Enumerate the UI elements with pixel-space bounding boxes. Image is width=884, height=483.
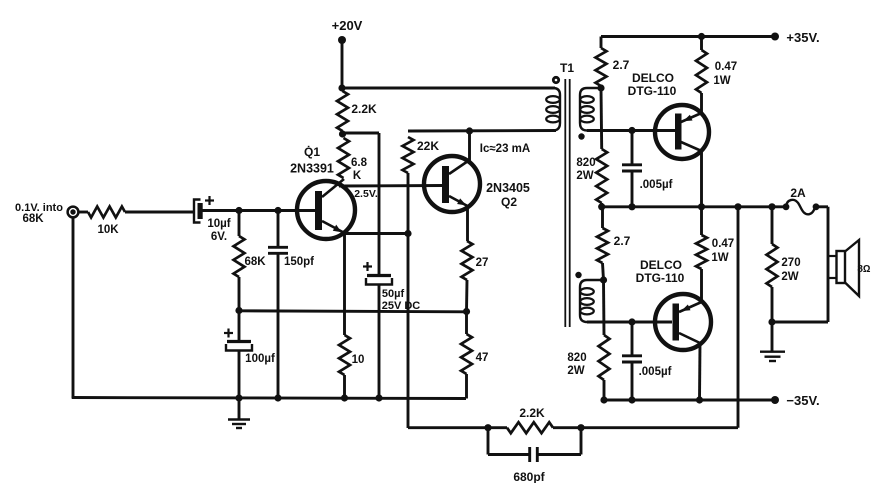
wire +35V rail — [601, 35, 775, 38]
svg-text:2.7: 2.7 — [614, 234, 631, 248]
wire 27 bottom — [465, 280, 468, 312]
wire 100uf bottom — [238, 351, 241, 398]
node 68K bottom — [235, 307, 242, 314]
resistor 68K — [234, 236, 245, 277]
svg-text:1W: 1W — [713, 75, 730, 87]
wire Q3 collector — [700, 151, 703, 207]
transistor Q2 — [424, 156, 480, 212]
wire +20V — [341, 42, 344, 89]
node feedback right — [577, 424, 584, 431]
node feedback left — [484, 424, 491, 431]
wire .005b bottom lead — [631, 363, 634, 401]
wire 22K bottom drop — [407, 173, 410, 428]
input terminal J1 — [68, 207, 79, 218]
wire 50uf bottom — [378, 285, 381, 398]
resistor 47 — [461, 334, 472, 374]
svg-text:−35V.: −35V. — [786, 393, 819, 408]
node 47 top — [463, 308, 470, 315]
svg-text:47: 47 — [476, 352, 489, 364]
wire Q2 collector — [468, 131, 471, 161]
svg-text:820: 820 — [567, 352, 586, 364]
wire Q1 emitter node — [345, 232, 409, 235]
svg-text:Ic≈23 mA: Ic≈23 mA — [480, 143, 530, 155]
transformer secondary top winding — [580, 88, 601, 131]
capacitor 680pf — [528, 447, 531, 462]
wire Q4 emitter lead — [700, 269, 703, 302]
svg-text:.005µf: .005µf — [639, 366, 672, 378]
resistor 0.47 top — [696, 50, 707, 93]
capacitor C1 10uf — [194, 200, 201, 223]
wire 2.7 to winding — [603, 263, 604, 280]
wire Q2 emitter — [466, 205, 469, 241]
node 50uf ground — [375, 394, 382, 401]
capacitor .005uf top — [622, 163, 642, 166]
svg-text:DELCO: DELCO — [640, 258, 682, 272]
svg-text:2W: 2W — [781, 271, 798, 283]
svg-text:Q̇1: Q̇1 — [304, 144, 320, 159]
svg-text:25V DC: 25V DC — [382, 300, 421, 312]
wire 68K bottom — [238, 277, 241, 311]
wire mid rail — [602, 205, 786, 208]
node +20V rail — [338, 84, 345, 91]
node .005 bottom tap — [628, 318, 635, 325]
svg-text:2W: 2W — [567, 365, 584, 377]
node midrail 820 — [598, 203, 605, 210]
wire Q4 collector — [698, 343, 701, 400]
resistor 27 — [462, 241, 473, 280]
svg-text:270: 270 — [781, 257, 800, 269]
svg-text:2.2K: 2.2K — [519, 406, 545, 420]
wire 10 bottom — [343, 375, 346, 398]
svg-text:22K: 22K — [417, 139, 439, 153]
wire .005 bottom lead — [631, 172, 634, 208]
resistor 22K — [403, 137, 414, 173]
transistor Q1 — [297, 181, 355, 239]
wire speaker bottom — [772, 321, 828, 324]
ground — [238, 398, 241, 419]
wire Q1 collector to Q2 base — [339, 184, 443, 187]
svg-text:2.2K: 2.2K — [351, 102, 377, 116]
resistor 10K — [88, 207, 125, 218]
wire bias line — [239, 311, 466, 312]
transistor Q4 DELCO — [655, 294, 711, 350]
capacitor .005uf bottom — [622, 354, 642, 357]
node Q2 collector rail — [466, 127, 473, 134]
svg-text:DTG-110: DTG-110 — [628, 84, 677, 98]
node Q2 emitter feedback — [404, 230, 411, 237]
svg-text:+35V.: +35V. — [786, 30, 819, 45]
wire 820 drop — [600, 88, 604, 149]
svg-text:68K: 68K — [244, 256, 266, 268]
resistor 820 bottom — [599, 335, 610, 380]
wire C1 to Q1 base — [202, 209, 315, 212]
resistor 2.2K — [337, 91, 348, 131]
wire Q3 base line — [587, 129, 675, 132]
capacitor C4 50uf — [367, 274, 391, 277]
node 2.2K 6.8K junction — [339, 130, 346, 137]
svg-text:150pf: 150pf — [284, 256, 314, 268]
svg-text:DTG-110: DTG-110 — [636, 271, 685, 285]
svg-text:.005µf: .005µf — [640, 179, 673, 191]
secondary top phase dot — [578, 133, 584, 139]
wire -35V rail — [604, 399, 775, 402]
transformer T1 primary winding — [553, 88, 560, 131]
svg-text:680pf: 680pf — [513, 470, 545, 483]
svg-text:2N3405: 2N3405 — [486, 181, 530, 195]
node rail 820b — [600, 396, 607, 403]
svg-text:K: K — [353, 170, 362, 182]
svg-text:2A: 2A — [790, 186, 806, 200]
power +35V terminal — [771, 33, 779, 41]
wire input drop — [72, 217, 75, 398]
resistor 6.8K — [338, 138, 349, 178]
svg-text:10: 10 — [352, 354, 365, 366]
svg-text:6V.: 6V. — [211, 231, 227, 243]
wire junction jog — [343, 132, 380, 135]
resistor 10 — [339, 335, 350, 375]
wire fb lead right — [553, 426, 581, 429]
capacitor 150pf — [268, 246, 288, 249]
wire fb lead left — [488, 426, 507, 429]
svg-text:Q2: Q2 — [501, 195, 517, 209]
node midrail feedback — [734, 203, 741, 210]
wire 47 bottom — [465, 374, 468, 399]
svg-text:T1: T1 — [560, 61, 574, 75]
node rail Q4 — [696, 396, 703, 403]
wire speaker drop — [827, 207, 830, 322]
wire top rail to T1 — [342, 87, 555, 90]
wire 680pf branch — [487, 428, 490, 455]
wire 270 bottom — [771, 287, 774, 322]
wire 47 lead — [465, 312, 468, 335]
resistor 2.7 bottom — [601, 207, 604, 228]
secondary bottom phase dot — [575, 272, 581, 278]
wire Q4 base line — [587, 321, 672, 324]
ground rail left — [72, 398, 466, 399]
svg-text:2.5V.: 2.5V. — [354, 188, 378, 200]
svg-text:0.47: 0.47 — [715, 61, 737, 73]
capacitor C3 100uf — [227, 340, 251, 343]
svg-text:2W: 2W — [576, 170, 593, 182]
wire input to 10K — [78, 211, 88, 214]
node Q1 base 150pf tap — [274, 207, 281, 214]
wire 820 to rail — [603, 380, 606, 400]
wire 68K top — [238, 211, 241, 237]
speaker 8ohm — [828, 255, 837, 257]
node Q1 base 68K tap — [235, 207, 242, 214]
resistor 2.7 top — [596, 48, 607, 86]
power +20V terminal — [338, 36, 346, 44]
resistor 820 top — [596, 149, 607, 203]
wire 150pf bottom — [277, 254, 280, 398]
node 2.7 winding junction — [597, 84, 604, 91]
resistor 270 lead — [771, 207, 774, 244]
wire 820 to midrail — [600, 203, 603, 207]
svg-text:50µf: 50µf — [382, 288, 405, 300]
wire feedback to output — [581, 426, 738, 429]
svg-text:DELCO: DELCO — [632, 71, 674, 85]
transformer core — [564, 79, 566, 327]
svg-text:8Ω: 8Ω — [857, 264, 871, 275]
node 150pf ground — [274, 394, 281, 401]
wire 22K rail — [408, 129, 556, 132]
svg-text:+20V: +20V — [332, 18, 363, 33]
node midrail 270 — [768, 203, 775, 210]
svg-text:0.47: 0.47 — [712, 238, 734, 250]
wire Q3 emitter lead — [700, 93, 703, 113]
power -35V terminal — [771, 396, 779, 404]
wire .005b top lead — [631, 322, 634, 355]
svg-text:820: 820 — [576, 157, 595, 169]
svg-text:2N3391: 2N3391 — [290, 162, 334, 176]
resistor 270 — [767, 244, 778, 287]
transistor Q3 DELCO — [655, 105, 709, 159]
resistor 0.47 bottom — [700, 207, 703, 235]
node rail .005b — [628, 396, 635, 403]
node winding bottom top — [600, 276, 607, 283]
svg-text:10µf: 10µf — [207, 218, 230, 230]
wire .005 top lead — [631, 131, 634, 165]
transformer primary phase dot — [553, 77, 558, 82]
node 10 ground — [341, 394, 348, 401]
node midrail Q3 — [698, 203, 705, 210]
node 0.47 top — [698, 33, 705, 40]
wire 150pf top — [277, 211, 280, 247]
svg-text:68K: 68K — [22, 213, 44, 225]
svg-text:1W: 1W — [711, 252, 728, 264]
svg-text:2.7: 2.7 — [613, 58, 630, 72]
wire Q1 emitter drop — [343, 234, 346, 336]
wire feedback corner — [408, 426, 488, 429]
transformer secondary bottom winding — [580, 280, 604, 322]
ground speaker — [771, 322, 774, 351]
node .005 top tap — [628, 127, 635, 134]
resistor 2.2K feedback — [507, 422, 553, 433]
svg-text:100µf: 100µf — [245, 353, 275, 365]
svg-text:27: 27 — [476, 257, 489, 269]
fuse 2A — [783, 203, 790, 210]
wire 820 bottom drop — [602, 280, 605, 335]
node ground left — [235, 394, 242, 401]
wire 10K to C1 — [125, 211, 194, 214]
svg-text:6.8: 6.8 — [351, 157, 368, 169]
wire 100uf top — [238, 311, 241, 340]
svg-text:10K: 10K — [97, 224, 119, 236]
node midrail .005 — [628, 203, 635, 210]
node 270 speaker — [768, 318, 775, 325]
